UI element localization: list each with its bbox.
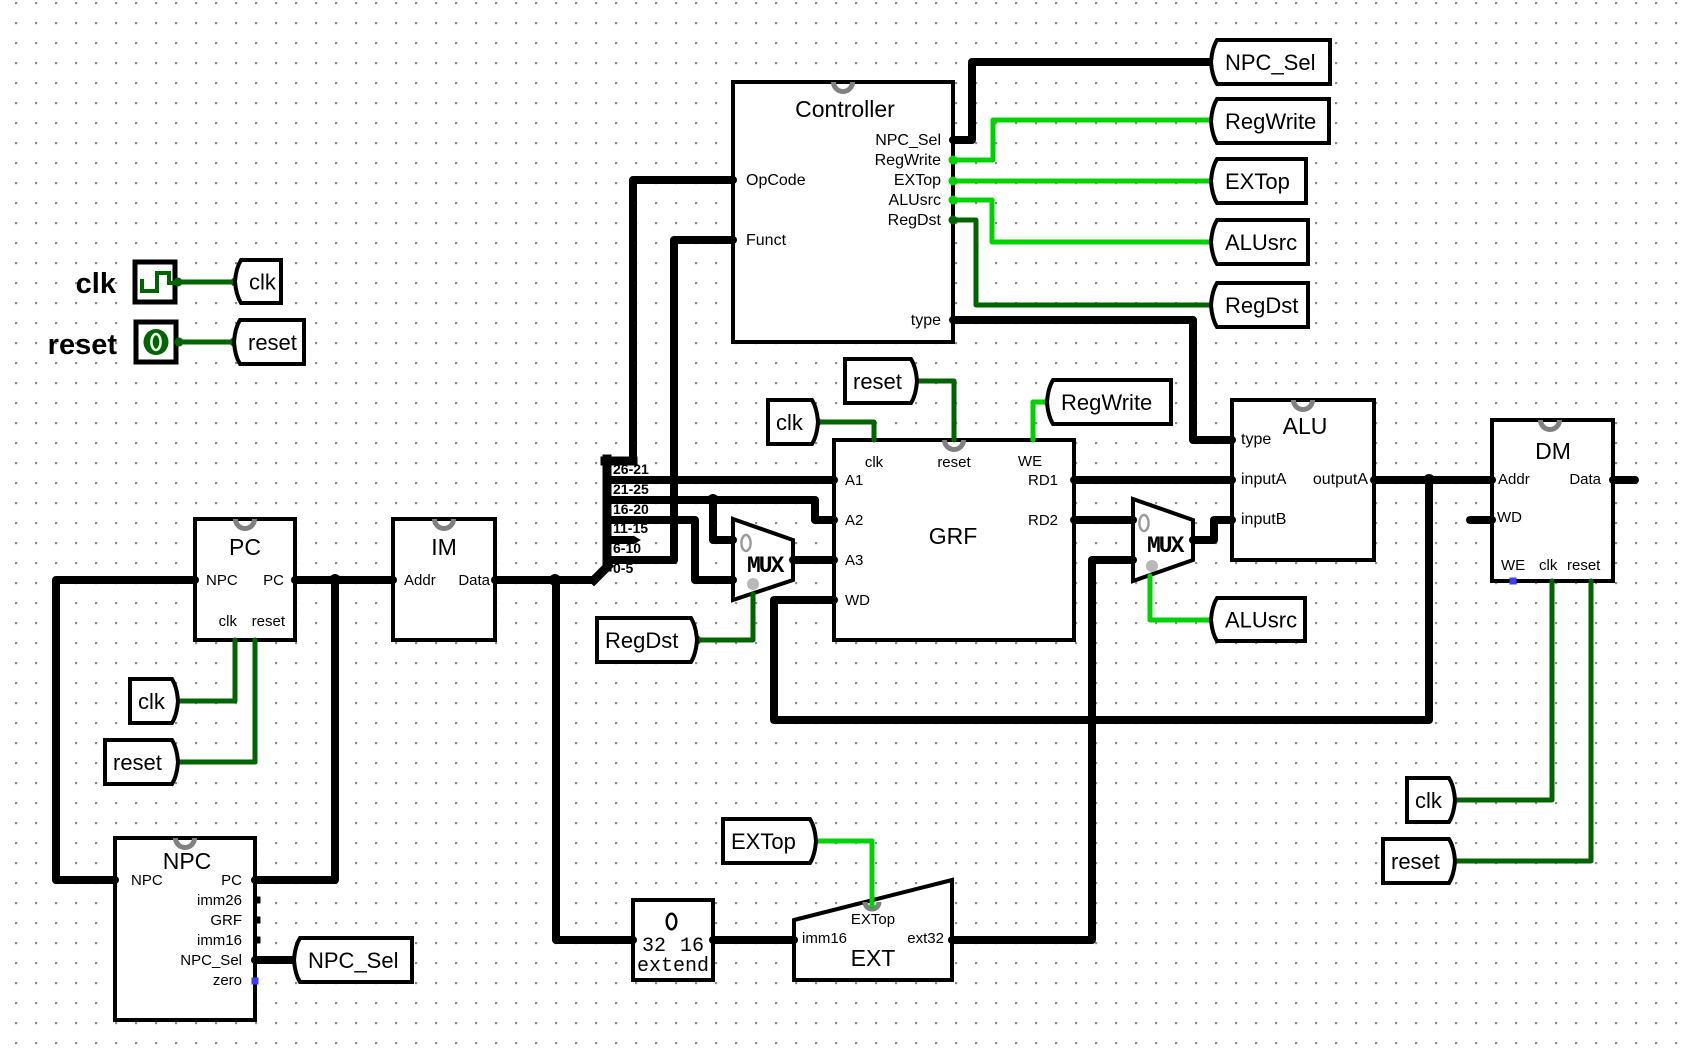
svg-text:inputA: inputA bbox=[1241, 471, 1287, 488]
svg-text:Data: Data bbox=[458, 572, 490, 589]
splitter spine bbox=[594, 459, 633, 580]
svg-text:PC: PC bbox=[229, 534, 261, 560]
svg-text:WE: WE bbox=[1501, 557, 1525, 574]
register file GRF bbox=[834, 440, 1074, 640]
svg-text:imm16: imm16 bbox=[197, 932, 242, 949]
wire ALUsrc wire to MUX2 select bbox=[1150, 576, 1213, 620]
endpoint GRF clk tunnel bbox=[813, 418, 822, 427]
wire Funct wire bbox=[674, 240, 733, 560]
NPC clock-notch bbox=[176, 838, 195, 848]
endpoint EXTop controller bbox=[949, 177, 958, 186]
svg-text:clk: clk bbox=[1415, 788, 1443, 813]
svg-text:NPC_Sel: NPC_Sel bbox=[1225, 50, 1315, 75]
ALU U-ALU bbox=[1232, 400, 1374, 560]
wire NPC to PC loop bbox=[56, 580, 195, 880]
wire RegDst wire to MUX1 select bbox=[697, 594, 753, 640]
tunnel reset (GRF) bbox=[845, 359, 917, 403]
svg-text:RegDst: RegDst bbox=[605, 628, 678, 653]
svg-text:DM: DM bbox=[1535, 438, 1571, 464]
svg-text:WD: WD bbox=[845, 592, 870, 609]
EXT clock-notch bbox=[865, 902, 879, 909]
tunnel clk (DM) bbox=[1407, 778, 1455, 822]
svg-text:reset: reset bbox=[937, 454, 971, 471]
svg-text:RegWrite: RegWrite bbox=[1225, 109, 1316, 134]
svg-text:WD: WD bbox=[1497, 509, 1522, 526]
junction rs branch bbox=[707, 494, 719, 506]
MUX2 input-0 label bbox=[1139, 515, 1148, 531]
DM WE pin (floating blue) bbox=[1510, 578, 1517, 585]
endpoint DM clk tunnel bbox=[1449, 796, 1458, 805]
reset constant pin bbox=[136, 322, 176, 362]
wire PC reset wire bbox=[176, 640, 255, 762]
svg-text:PC: PC bbox=[263, 572, 284, 589]
endpoint PC clk tunnel bbox=[172, 697, 181, 706]
MUX1 select dot bbox=[747, 578, 759, 590]
wire EXT.ext32 to MUX2 input1 bbox=[952, 560, 1133, 940]
endpoint RegWrite WE tunnel bbox=[1044, 398, 1053, 407]
svg-text:EXT: EXT bbox=[851, 945, 896, 971]
wire IM Data to splitter bbox=[495, 576, 594, 584]
svg-text:clk: clk bbox=[76, 268, 117, 300]
wire splitter branch 11-15 stub bbox=[607, 536, 633, 544]
wire GRF.WD feedback bus bbox=[774, 480, 1429, 720]
extend label 0 bbox=[667, 914, 677, 930]
wire GRF.RD2 to MUX2 input0 bbox=[1074, 516, 1133, 524]
endpoint clk pin bbox=[174, 278, 183, 287]
svg-text:reset: reset bbox=[1567, 557, 1601, 574]
wire branch to MUX1 input0 bbox=[713, 500, 733, 540]
svg-text:RD2: RD2 bbox=[1028, 512, 1058, 529]
svg-text:NPC: NPC bbox=[131, 872, 163, 889]
svg-text:imm26: imm26 bbox=[197, 892, 242, 909]
multiplexer MUX2 bbox=[1133, 499, 1193, 581]
IM clock-notch bbox=[435, 519, 454, 529]
junction PC-IM / NPC.PC bbox=[329, 574, 341, 586]
register PC bbox=[195, 519, 295, 640]
svg-text:reset: reset bbox=[853, 369, 902, 394]
svg-text:NPC: NPC bbox=[163, 848, 212, 874]
wire GRF.RD1 to ALU.inputA bbox=[1074, 476, 1232, 484]
tunnel clk (PC) bbox=[130, 679, 178, 723]
svg-text:extend: extend bbox=[637, 955, 709, 978]
tunnel reset (DM) bbox=[1383, 839, 1455, 883]
wire MUX1 out to GRF.A3 bbox=[793, 556, 834, 564]
instruction memory IM bbox=[393, 519, 495, 640]
wire imm16 chain bbox=[556, 580, 633, 940]
bit extender 'extend' bbox=[633, 900, 713, 980]
wire OpCode wire bbox=[633, 180, 733, 460]
controller clock-notch bbox=[834, 82, 853, 92]
wire EXTop wire from controller bbox=[953, 179, 1213, 184]
wire DM.Data stub bbox=[1613, 476, 1635, 484]
NPC GRF pin nub bbox=[254, 917, 261, 924]
svg-text:inputB: inputB bbox=[1241, 511, 1286, 528]
junction IM Data / imm16 branch bbox=[549, 574, 561, 586]
endpoint RegDst tunnel mid bbox=[693, 636, 702, 645]
svg-text:Data: Data bbox=[1569, 471, 1601, 488]
svg-text:EXTop: EXTop bbox=[731, 829, 796, 854]
NPC zero pin (floating blue) bbox=[252, 978, 259, 985]
endpoint reset tunnel bbox=[230, 338, 239, 347]
svg-text:reset: reset bbox=[248, 330, 297, 355]
endpoint EXTop ext tunnel bbox=[810, 837, 819, 846]
svg-text:Funct: Funct bbox=[746, 232, 787, 249]
svg-text:PC: PC bbox=[221, 872, 242, 889]
MUX2 select dot bbox=[1146, 560, 1158, 572]
wire clk pin to tunnel bbox=[179, 280, 235, 285]
endpoint GRF reset tunnel bbox=[911, 377, 920, 386]
tunnel RegDst (top) bbox=[1211, 283, 1308, 327]
svg-text:ext32: ext32 bbox=[907, 930, 944, 947]
svg-text:NPC_Sel: NPC_Sel bbox=[180, 952, 242, 969]
wire PC to IM bbox=[295, 576, 393, 584]
svg-text:reset: reset bbox=[113, 750, 162, 775]
svg-text:Addr: Addr bbox=[404, 572, 436, 589]
junction ALU out / feedback bbox=[1423, 474, 1435, 486]
endpoint RegDst controller bbox=[949, 216, 958, 225]
wire ALU.outputA to DM.Addr bbox=[1374, 476, 1492, 484]
svg-text:clk: clk bbox=[219, 613, 238, 630]
wire splitter branch 6-10 to Funct bbox=[607, 556, 674, 564]
clk input pin bbox=[135, 262, 175, 302]
svg-text:EXTop: EXTop bbox=[1225, 169, 1290, 194]
svg-text:EXTop: EXTop bbox=[894, 172, 941, 189]
svg-text:zero: zero bbox=[213, 972, 242, 989]
svg-text:clk: clk bbox=[776, 410, 804, 435]
svg-text:A3: A3 bbox=[845, 552, 863, 569]
svg-text:clk: clk bbox=[1539, 557, 1558, 574]
wire RegWrite wire from controller bbox=[953, 120, 1213, 160]
svg-text:clk: clk bbox=[138, 689, 166, 714]
sign extender EXT bbox=[794, 880, 952, 980]
endpoint ALUsrc tunnel bbox=[1209, 238, 1218, 247]
svg-text:ALUsrc: ALUsrc bbox=[889, 192, 941, 209]
svg-text:RegDst: RegDst bbox=[888, 212, 942, 229]
DM clock-notch bbox=[1541, 420, 1560, 430]
wire MUX2 out to ALU.inputB bbox=[1193, 520, 1232, 540]
GRF clock-notch bbox=[945, 440, 964, 450]
tunnel clk (GRF) bbox=[768, 400, 818, 444]
tunnel NPC_Sel (top) bbox=[1211, 40, 1330, 84]
NPC imm16 pin nub bbox=[254, 937, 261, 944]
svg-text:RegWrite: RegWrite bbox=[1061, 390, 1152, 415]
svg-text:MUX: MUX bbox=[747, 553, 785, 579]
svg-text:ALU: ALU bbox=[1283, 413, 1328, 439]
svg-text:outputA: outputA bbox=[1313, 471, 1368, 488]
wire splitter branch 16-20 to MUX1 input1 bbox=[607, 520, 733, 580]
svg-text:Controller: Controller bbox=[795, 96, 895, 122]
svg-text:A2: A2 bbox=[845, 512, 863, 529]
endpoint ALUsrc controller bbox=[949, 196, 958, 205]
svg-text:WE: WE bbox=[1018, 453, 1042, 470]
clk waveform icon bbox=[142, 273, 175, 291]
svg-text:reset: reset bbox=[252, 613, 286, 630]
wire PC out to NPC.PC bbox=[255, 580, 335, 880]
tunnel reset (PC) bbox=[105, 740, 178, 784]
svg-text:GRF: GRF bbox=[210, 912, 242, 929]
endpoint PC reset tunnel bbox=[172, 758, 181, 767]
svg-text:reset: reset bbox=[1391, 849, 1440, 874]
tunnel RegWrite (GRF WE) bbox=[1047, 380, 1171, 424]
svg-text:clk: clk bbox=[865, 454, 884, 471]
svg-text:IM: IM bbox=[431, 534, 457, 560]
tunnel ALUsrc (MUX2) bbox=[1211, 598, 1305, 641]
svg-text:OpCode: OpCode bbox=[746, 172, 806, 189]
svg-text:type: type bbox=[1241, 431, 1271, 448]
svg-text:ALUsrc: ALUsrc bbox=[1225, 608, 1297, 633]
wire DM reset wire bbox=[1453, 581, 1591, 861]
svg-text:0-5: 0-5 bbox=[613, 560, 633, 576]
svg-text:NPC: NPC bbox=[206, 572, 238, 589]
svg-text:A1: A1 bbox=[845, 472, 863, 489]
endpoint DM reset tunnel bbox=[1449, 857, 1458, 866]
PC clock-notch bbox=[236, 519, 255, 529]
wire ALUsrc wire from controller bbox=[953, 200, 1213, 242]
endpoint reset pin bbox=[175, 338, 184, 347]
wire DM clk wire bbox=[1453, 581, 1552, 800]
wire splitter branch 26-21 to GRF.A1 bbox=[607, 476, 834, 484]
svg-text:RD1: RD1 bbox=[1028, 472, 1058, 489]
wire EXTop wire to EXT bbox=[814, 841, 872, 906]
endpoint RegWrite tunnel bbox=[1209, 116, 1218, 125]
ALU clock-notch bbox=[1294, 400, 1313, 410]
endpoint RegDst tunnel right bbox=[1209, 301, 1218, 310]
tunnel RegWrite (top) bbox=[1211, 99, 1329, 143]
svg-text:Addr: Addr bbox=[1498, 471, 1530, 488]
svg-text:ALUsrc: ALUsrc bbox=[1225, 230, 1297, 255]
register NPC bbox=[115, 838, 255, 1020]
svg-text:11-15: 11-15 bbox=[613, 520, 648, 536]
svg-text:EXTop: EXTop bbox=[851, 911, 895, 928]
wire reset pin to tunnel bbox=[179, 340, 234, 345]
tunnel RegDst (MUX1) bbox=[597, 618, 697, 662]
svg-text:21-25: 21-25 bbox=[613, 481, 649, 497]
reset constant value 0 bbox=[144, 329, 169, 355]
endpoint ALUsrc mux tunnel bbox=[1209, 616, 1218, 625]
splitter branch 11-15 tip bbox=[633, 536, 641, 545]
data memory DM bbox=[1492, 420, 1613, 581]
wire extend to EXT.imm16 bbox=[713, 936, 794, 944]
svg-text:6-10: 6-10 bbox=[613, 540, 641, 556]
wire DM.WD stub bbox=[1470, 516, 1492, 524]
svg-text:type: type bbox=[911, 312, 941, 329]
wire GRF reset wire bbox=[915, 381, 954, 440]
tunnel ALUsrc (top) bbox=[1211, 220, 1308, 264]
tunnel clk (source) bbox=[235, 260, 281, 303]
svg-text:16-20: 16-20 bbox=[613, 501, 649, 517]
wire NPC_Sel wire top bbox=[953, 62, 1213, 140]
svg-text:NPC_Sel: NPC_Sel bbox=[875, 132, 941, 149]
wire NPC_Sel wire bottom bbox=[255, 956, 295, 964]
tunnel EXTop (top) bbox=[1211, 159, 1306, 203]
NPC imm26 pin nub bbox=[254, 897, 261, 904]
svg-text:RegDst: RegDst bbox=[1225, 293, 1298, 318]
svg-text:clk: clk bbox=[249, 270, 277, 295]
wire type wire bbox=[953, 320, 1232, 440]
tunnel EXTop (EXT) bbox=[723, 819, 816, 863]
wire splitter branch 21-25 to GRF.A2 bbox=[607, 500, 834, 520]
multiplexer MUX1 bbox=[733, 519, 793, 600]
svg-text:NPC_Sel: NPC_Sel bbox=[308, 948, 398, 973]
wire RegWrite wire to GRF.WE bbox=[1033, 402, 1048, 440]
svg-text:MUX: MUX bbox=[1147, 533, 1185, 559]
wire RegDst wire from controller bbox=[953, 220, 1213, 305]
wire PC clk wire bbox=[176, 640, 235, 701]
controller U-CTRL bbox=[733, 82, 953, 342]
svg-text:reset: reset bbox=[48, 329, 118, 361]
tunnel reset (source) bbox=[234, 320, 304, 364]
endpoint clk tunnel bbox=[231, 278, 240, 287]
svg-text:imm16: imm16 bbox=[802, 930, 847, 947]
svg-text:RegWrite: RegWrite bbox=[875, 152, 941, 169]
wire GRF clk wire bbox=[817, 422, 874, 440]
svg-text:26-21: 26-21 bbox=[613, 461, 649, 477]
endpoint RegWrite controller bbox=[949, 156, 958, 165]
MUX1 input-0 label bbox=[741, 535, 750, 551]
endpoint EXTop tunnel bbox=[1209, 177, 1218, 186]
svg-text:GRF: GRF bbox=[929, 523, 978, 549]
tunnel NPC_Sel (NPC) bbox=[294, 938, 412, 982]
